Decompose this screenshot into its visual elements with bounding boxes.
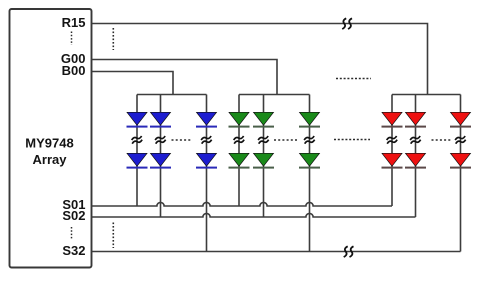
ellipsis more columns (green group) <box>274 139 298 141</box>
LED blue column 3 top <box>196 112 217 127</box>
LED blue column 1 bottom <box>127 153 148 168</box>
ellipsis pins R15..G00 <box>71 32 73 46</box>
series continuation squiggle red column 2 <box>410 136 421 144</box>
LED green column 1 top <box>229 112 250 127</box>
LED green column 2 top <box>253 112 274 127</box>
svg-text:R15: R15 <box>62 15 86 30</box>
series continuation squiggle blue column 1 <box>131 136 142 144</box>
svg-text:MY9748: MY9748 <box>25 136 73 151</box>
ellipsis more anode nets (top) <box>112 28 114 50</box>
wire red column 2 <box>415 95 417 218</box>
LED blue column 2 top <box>150 112 171 127</box>
net G00 wire to green group <box>92 60 278 95</box>
svg-text:B00: B00 <box>62 63 86 78</box>
svg-text:Array: Array <box>33 152 68 167</box>
LED blue column 3 bottom <box>196 153 217 168</box>
anode bus wire (green group) <box>239 94 310 96</box>
LED green column 3 bottom <box>299 153 320 168</box>
wire blue column 1 <box>136 95 138 207</box>
net S01 wire with crossover hops <box>92 202 393 206</box>
LED red column 1 top <box>382 112 403 127</box>
LED red column 3 top <box>450 112 471 127</box>
series continuation squiggle red column 3 <box>455 136 466 144</box>
LED red column 1 bottom <box>382 153 403 168</box>
series continuation squiggle green column 3 <box>304 136 315 144</box>
anode bus wire (blue group) <box>137 94 207 96</box>
series continuation squiggle green column 1 <box>233 136 244 144</box>
wire blue column 3 <box>206 95 208 252</box>
IC U1 MY9748 Array body <box>10 9 92 268</box>
svg-text:S32: S32 <box>62 243 85 258</box>
break symbol on net R15 <box>342 18 352 29</box>
wire blue column 2 <box>160 95 162 218</box>
net B00 wire to blue group <box>92 72 174 95</box>
LED blue column 2 bottom <box>150 153 171 168</box>
series continuation squiggle red column 1 <box>386 136 397 144</box>
LED red column 2 top <box>405 112 426 127</box>
LED green column 3 top <box>299 112 320 127</box>
LED red column 2 bottom <box>405 153 426 168</box>
ellipsis more columns (blue group) <box>172 139 192 141</box>
wire green column 3 <box>309 95 311 252</box>
wire green column 1 <box>238 95 240 207</box>
LED green column 1 bottom <box>229 153 250 168</box>
LED red column 3 bottom <box>450 153 471 168</box>
wire green column 2 <box>263 95 265 218</box>
series continuation squiggle blue column 2 <box>155 136 166 144</box>
ellipsis more LED groups between green and red <box>334 139 370 141</box>
ellipsis pins S02..S32 <box>71 227 73 240</box>
LED green column 2 bottom <box>253 153 274 168</box>
ellipsis more columns (red group) <box>432 139 451 141</box>
series continuation squiggle green column 2 <box>258 136 269 144</box>
ellipsis more colour nets between green and red <box>336 78 371 80</box>
wire red column 3 <box>460 95 462 252</box>
break symbol on net S32 <box>344 246 354 257</box>
net R15 wire to red group <box>92 24 428 95</box>
series continuation squiggle blue column 3 <box>201 136 212 144</box>
anode bus wire (red group) <box>392 94 461 96</box>
svg-text:S02: S02 <box>62 208 85 223</box>
net S32 wire <box>92 251 461 253</box>
ellipsis more scan nets (bottom) <box>112 223 114 249</box>
wire red column 1 <box>391 95 393 207</box>
net S02 wire with crossover hops <box>92 213 416 217</box>
LED blue column 1 top <box>127 112 148 127</box>
